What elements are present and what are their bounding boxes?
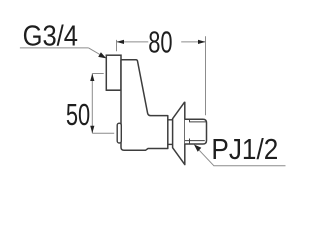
nut hex boundary vertical bottom	[189, 139, 191, 145]
nut / threaded end (PJ1/2)	[185, 119, 207, 144]
wall flange (escutcheon)	[173, 102, 185, 165]
label PJ1/2 leader	[196, 146, 214, 165]
svg-text:PJ1/2: PJ1/2	[211, 133, 278, 166]
dim 80: dimension line left segment	[117, 41, 149, 43]
neck top line	[168, 119, 173, 121]
nut hex boundary vertical top	[189, 119, 191, 122]
svg-text:G3/4: G3/4	[23, 19, 78, 52]
label G3/4 underline	[20, 47, 89, 49]
stub bottom edge	[106, 89, 121, 91]
dim 50: bottom arrow	[90, 126, 94, 134]
label G3/4 leader	[89, 48, 105, 58]
label PJ1/2 arrow	[194, 144, 201, 151]
nut facet line bottom	[185, 140, 205, 142]
label G3/4 arrow	[98, 52, 106, 58]
body outline	[121, 60, 168, 151]
svg-text:50: 50	[66, 98, 90, 133]
dim 50: bottom extension line	[92, 132, 114, 134]
label PJ1/2 underline	[214, 165, 286, 167]
nut facet line top	[190, 121, 206, 123]
dim 50: dimension line	[91, 74, 93, 134]
dim 80: right arrow	[198, 40, 206, 44]
dim 80: dimension line right segment	[181, 41, 205, 43]
dim 80: left extension line	[116, 40, 118, 51]
dim 80: left arrow	[117, 40, 125, 44]
dim 50: top arrow	[90, 74, 94, 82]
dim 80: right extension line	[205, 36, 207, 115]
svg-text:80: 80	[148, 25, 172, 60]
neck bottom line	[168, 143, 173, 145]
side bump (cap)	[117, 123, 121, 143]
dim 50: top extension line	[92, 73, 103, 75]
inlet stub (G3/4 socket)	[106, 55, 121, 90]
